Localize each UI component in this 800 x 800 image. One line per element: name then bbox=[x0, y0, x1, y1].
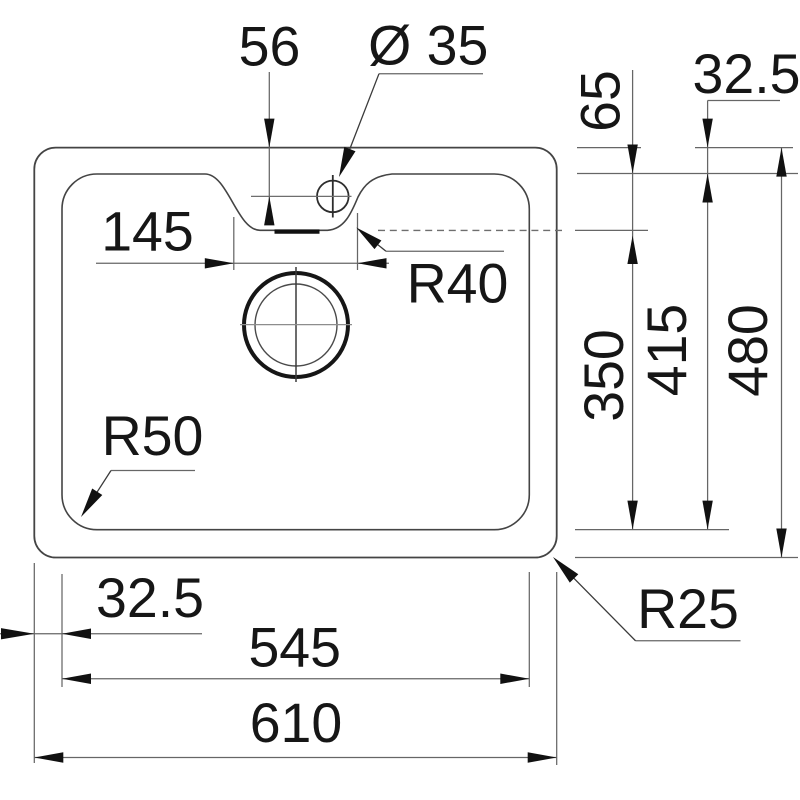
svg-text:32.5: 32.5 bbox=[96, 567, 204, 629]
arrow 415 bottom bbox=[702, 501, 712, 530]
extension line bowl bottom right bbox=[575, 529, 729, 531]
drain centerline horizontal bbox=[240, 324, 352, 326]
arrow 32.5 top outside bbox=[702, 119, 712, 148]
arrow 32.5 bottom left bbox=[1, 628, 34, 639]
extension line 145 left bbox=[233, 217, 235, 270]
extension line sink right bottom bbox=[556, 572, 558, 765]
arrow 65-350 middle bbox=[627, 236, 637, 265]
extension line sink left bottom bbox=[33, 563, 35, 763]
dimension line 610 bbox=[34, 757, 556, 759]
extension line bowl right bottom bbox=[528, 572, 530, 687]
arrow 350 bottom bbox=[627, 501, 637, 530]
bowl outline with tap recess dip bbox=[62, 174, 529, 530]
extension line 145 right bbox=[357, 213, 359, 270]
leader line R25 bbox=[571, 575, 636, 640]
svg-text:56: 56 bbox=[239, 16, 301, 78]
svg-text:R50: R50 bbox=[102, 405, 204, 467]
svg-text:610: 610 bbox=[250, 692, 343, 754]
tap hole cross vertical bbox=[332, 175, 334, 218]
arrow 56 upper bbox=[264, 119, 274, 148]
dashed recess-depth level line bbox=[378, 229, 565, 231]
extension line sink top right (segment 2) bbox=[695, 147, 793, 149]
dimension line 56 vertical bbox=[268, 72, 270, 224]
leader line R40 bbox=[370, 239, 386, 252]
underline 32.5 top bbox=[708, 100, 780, 102]
leader arrow diameter 35 bbox=[339, 147, 356, 177]
svg-text:350: 350 bbox=[573, 329, 635, 422]
extension line sink top right (segment 1) bbox=[577, 147, 641, 149]
svg-text:65: 65 bbox=[569, 70, 631, 132]
arrow 32.5 bottom right bbox=[62, 629, 91, 639]
drain inner circle bbox=[255, 284, 337, 366]
svg-text:545: 545 bbox=[248, 617, 341, 679]
tap hole centerline horizontal bbox=[251, 195, 352, 197]
dimension line 32.5 bottom bbox=[0, 633, 202, 635]
arrow 610 left bbox=[34, 752, 63, 762]
svg-text:415: 415 bbox=[636, 304, 698, 397]
arrow 415 top bbox=[702, 174, 712, 203]
svg-text:32.5: 32.5 bbox=[692, 43, 800, 105]
leader line diameter 35 bbox=[344, 74, 379, 164]
leader landing R40 bbox=[386, 250, 504, 252]
drain outer circle bbox=[244, 273, 348, 377]
svg-text:R25: R25 bbox=[637, 578, 739, 640]
thick recess bottom segment bbox=[275, 229, 320, 233]
leader landing R50 bbox=[111, 470, 195, 472]
arrow 545 right bbox=[500, 674, 529, 684]
arrow 56 lower bbox=[264, 196, 274, 225]
arrow 545 left bbox=[62, 674, 91, 684]
dimension line 145 horizontal bbox=[96, 262, 389, 264]
arrow 610 right bbox=[528, 752, 557, 762]
arrow 145 right bbox=[358, 258, 387, 268]
dimension line 480 vertical bbox=[781, 148, 783, 558]
arrow 480 top bbox=[776, 148, 786, 177]
dimension line 32.5-415 vertical bbox=[707, 101, 709, 530]
extension line recess level right bbox=[575, 229, 648, 231]
outer sink rim outline bbox=[34, 148, 556, 558]
arrow 480 bottom bbox=[776, 529, 786, 558]
arrow 145 left bbox=[205, 258, 234, 268]
extension line bowl top right bbox=[577, 173, 798, 175]
dimension line 545 bbox=[62, 678, 529, 680]
svg-text:Ø 35: Ø 35 bbox=[368, 15, 488, 77]
leader arrow R50 bbox=[81, 489, 102, 518]
svg-text:145: 145 bbox=[101, 201, 194, 263]
leader arrow R25 bbox=[553, 557, 578, 583]
leader line R50 bbox=[95, 471, 111, 496]
dimension line 65-350 vertical bbox=[632, 70, 634, 530]
extension line bowl left bottom bbox=[61, 574, 63, 687]
drain centerline vertical bbox=[295, 267, 297, 382]
underline diameter 35 bbox=[379, 73, 483, 75]
svg-text:R40: R40 bbox=[407, 253, 509, 315]
leader landing R25 bbox=[636, 640, 741, 642]
svg-text:480: 480 bbox=[717, 304, 779, 397]
tap hole circle bbox=[317, 181, 349, 213]
extension line sink bottom right bbox=[575, 557, 798, 559]
arrow 65 upper bbox=[627, 145, 637, 174]
leader arrow R40 bbox=[356, 228, 381, 250]
